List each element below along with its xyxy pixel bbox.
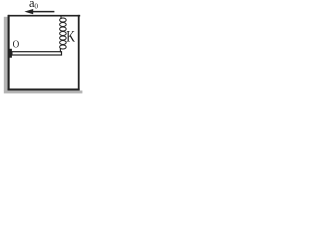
rod from O to spring xyxy=(12,52,62,55)
left wall gray band xyxy=(4,17,8,91)
box top wall xyxy=(8,15,80,17)
spring K coils xyxy=(60,18,67,49)
label a0 (acceleration) xyxy=(29,0,38,11)
bottom shadow gray band xyxy=(4,91,83,94)
svg-text:O: O xyxy=(13,38,20,50)
svg-text:0: 0 xyxy=(34,2,38,11)
box bottom wall xyxy=(8,89,80,91)
box right wall xyxy=(78,15,80,91)
spring K bottom stub to rod xyxy=(59,49,61,53)
svg-text:K: K xyxy=(66,29,75,46)
spring K top stub xyxy=(60,16,62,19)
wall attachment block xyxy=(9,49,12,58)
box left wall xyxy=(8,15,10,91)
arrow a0 pointing left xyxy=(24,9,54,14)
